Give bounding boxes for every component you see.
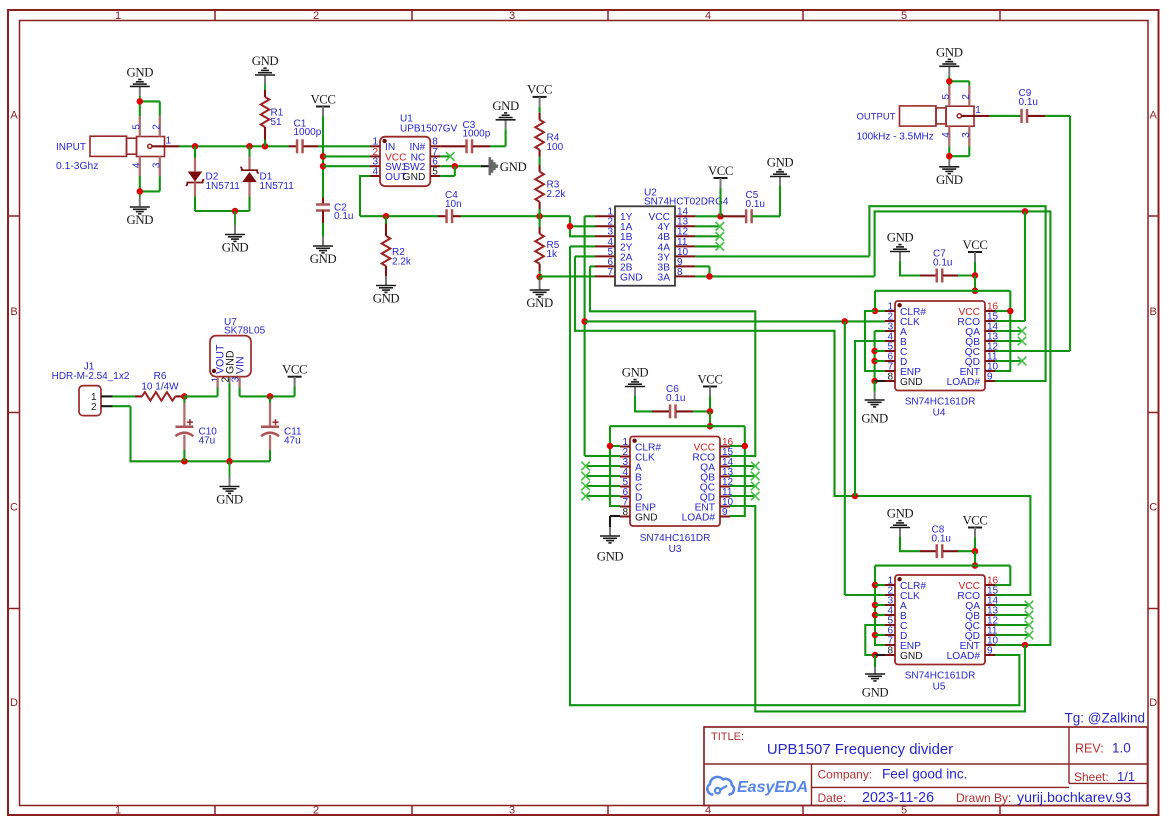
svg-text:1N5711: 1N5711 [206,181,241,192]
svg-text:Drawn By:: Drawn By: [956,791,1011,805]
svg-text:VCC: VCC [697,372,722,386]
svg-text:U5: U5 [933,682,946,693]
svg-text:INPUT: INPUT [56,142,86,153]
svg-text:0.1u: 0.1u [932,534,951,545]
svg-text:7: 7 [607,267,613,278]
svg-text:OUTPUT: OUTPUT [857,112,896,123]
svg-text:1: 1 [115,805,121,817]
svg-text:3: 3 [509,805,515,817]
svg-text:GND: GND [403,172,426,183]
svg-text:B: B [10,306,17,318]
svg-text:Tg: @Zalkind: Tg: @Zalkind [1065,711,1145,726]
svg-text:9: 9 [987,645,993,656]
svg-text:GND: GND [492,99,519,113]
svg-text:TITLE:: TITLE: [711,731,744,743]
svg-text:HDR-M-2.54_1x2: HDR-M-2.54_1x2 [52,371,130,382]
svg-text:2: 2 [313,10,319,22]
svg-text:GND: GND [620,272,643,283]
svg-text:8: 8 [677,267,683,278]
svg-text:LOAD#: LOAD# [682,512,716,523]
svg-text:GND: GND [635,512,658,523]
svg-text:GND: GND [936,173,963,187]
svg-text:2: 2 [313,805,319,817]
svg-text:2: 2 [961,94,972,100]
svg-text:GND: GND [887,507,914,521]
svg-text:Company:: Company: [818,768,873,782]
svg-text:UPB1507 Frequency divider: UPB1507 Frequency divider [767,742,953,758]
svg-text:GND: GND [767,156,794,170]
svg-text:VCC: VCC [310,92,335,106]
svg-text:UPB1507GV: UPB1507GV [400,123,458,134]
svg-text:D: D [10,697,18,709]
svg-text:Sheet:: Sheet: [1074,770,1109,784]
svg-text:GND: GND [861,412,888,426]
svg-text:GND: GND [127,66,154,80]
svg-text:1: 1 [975,105,981,116]
svg-text:1: 1 [115,10,121,22]
svg-text:10 1/4W: 10 1/4W [141,381,179,392]
svg-text:SK78L05: SK78L05 [224,325,266,336]
svg-text:3: 3 [151,162,162,168]
svg-text:VCC: VCC [282,363,307,377]
svg-text:1/1: 1/1 [1117,769,1135,784]
svg-text:4: 4 [705,10,711,22]
svg-text:1.0: 1.0 [1112,741,1131,756]
svg-text:5: 5 [901,10,907,22]
svg-text:LOAD#: LOAD# [947,377,981,388]
svg-text:A: A [1150,110,1158,122]
svg-text:0.1u: 0.1u [746,199,765,210]
svg-text:GND: GND [900,377,923,388]
svg-text:5: 5 [941,94,952,100]
svg-text:3A: 3A [658,272,671,283]
svg-text:VCC: VCC [708,164,733,178]
svg-text:GND: GND [900,651,923,662]
svg-text:8: 8 [622,507,628,518]
svg-text:2023-11-26: 2023-11-26 [862,790,934,806]
svg-text:GND: GND [373,292,400,306]
svg-text:GND: GND [936,46,963,60]
svg-text:EasyEDA: EasyEDA [737,779,808,796]
svg-text:0.1u: 0.1u [666,393,685,404]
svg-text:51: 51 [271,117,283,128]
svg-text:3: 3 [961,132,972,138]
svg-text:GND: GND [216,493,243,507]
svg-text:8: 8 [887,645,893,656]
svg-text:0.1u: 0.1u [334,211,353,222]
svg-text:C: C [1149,502,1157,514]
svg-text:4: 4 [372,166,378,177]
svg-text:GND: GND [526,296,553,310]
svg-text:5: 5 [432,166,438,177]
svg-text:100: 100 [547,142,564,153]
svg-text:B: B [1150,306,1157,318]
svg-text:47u: 47u [284,435,301,446]
svg-text:1k: 1k [547,249,559,260]
svg-text:GND: GND [310,252,337,266]
svg-text:2.2k: 2.2k [392,256,412,267]
svg-text:100kHz - 3.5MHz: 100kHz - 3.5MHz [857,132,934,143]
svg-text:GND: GND [252,54,279,68]
svg-text:Date:: Date: [818,791,847,805]
svg-text:Feel good inc.: Feel good inc. [882,767,967,782]
svg-text:U4: U4 [933,408,946,419]
svg-text:1000p: 1000p [463,129,491,140]
svg-text:yurij.bochkarev.93: yurij.bochkarev.93 [1017,790,1131,806]
svg-text:C: C [10,502,18,514]
svg-text:GND: GND [622,366,649,380]
svg-text:GND: GND [887,231,914,245]
svg-text:47u: 47u [199,435,216,446]
svg-text:9: 9 [987,371,993,382]
svg-text:1N5711: 1N5711 [260,181,295,192]
svg-text:U3: U3 [669,544,682,555]
svg-text:D: D [1149,697,1157,709]
svg-text:3: 3 [509,10,515,22]
svg-text:4: 4 [131,162,142,168]
svg-text:VCC: VCC [527,83,552,97]
svg-text:GND: GND [127,213,154,227]
svg-text:2.2k: 2.2k [547,189,567,200]
svg-text:9: 9 [722,507,728,518]
svg-text:SN74HCT02DRG4: SN74HCT02DRG4 [644,196,729,207]
svg-text:VCC: VCC [962,513,987,527]
svg-text:SN74HC161DR: SN74HC161DR [905,397,976,408]
svg-text:1: 1 [166,135,172,146]
svg-text:0.1-3Ghz: 0.1-3Ghz [56,161,98,172]
svg-text:GND: GND [862,686,889,700]
svg-text:0.1u: 0.1u [933,258,952,269]
svg-text:GND: GND [500,160,527,174]
svg-text:SN74HC161DR: SN74HC161DR [905,671,976,682]
svg-text:1000p: 1000p [294,127,322,138]
svg-text:A: A [10,110,18,122]
svg-text:VIN: VIN [235,356,247,374]
svg-text:2: 2 [91,402,97,413]
svg-text:10n: 10n [445,199,462,210]
svg-text:REV:: REV: [1075,742,1104,756]
svg-text:VCC: VCC [962,238,987,252]
svg-text:LOAD#: LOAD# [947,651,981,662]
svg-text:4: 4 [941,132,952,138]
svg-text:SN74HC161DR: SN74HC161DR [640,533,711,544]
svg-text:GND: GND [222,241,249,255]
svg-text:5: 5 [131,124,142,130]
svg-text:8: 8 [887,371,893,382]
svg-text:GND: GND [597,550,624,564]
svg-text:2: 2 [151,124,162,130]
svg-text:0.1u: 0.1u [1019,97,1038,108]
